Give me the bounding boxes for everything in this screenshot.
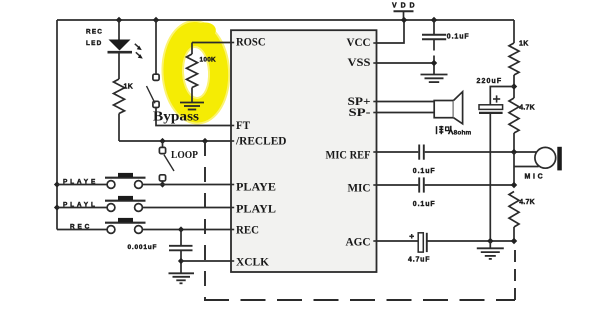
- wire: LED branch from rail: [118, 20, 120, 40]
- svg-text:MIC: MIC: [348, 183, 371, 195]
- svg-text:MIC REF: MIC REF: [326, 150, 371, 162]
- node: MIC REF column junction: [511, 149, 517, 155]
- pushbutton PLAYL: left contact: [107, 204, 115, 212]
- wire: cap to mic node: [425, 151, 537, 153]
- wire: /RECLED line to chip: [119, 140, 231, 142]
- svg-text:PLAYE: PLAYE: [236, 182, 276, 194]
- ground below 0.001uF: [169, 273, 195, 283]
- pushbutton PLAYL: right contact: [135, 204, 143, 212]
- svg-text:PLAYL: PLAYL: [236, 204, 276, 216]
- svg-text:1K: 1K: [124, 84, 134, 91]
- wire: column between mic nodes: [513, 152, 515, 185]
- node: 220uF junction: [511, 83, 517, 89]
- capacitor 0.1uF (MIC REF): [419, 145, 424, 160]
- svg-text:LED: LED: [86, 40, 102, 47]
- pushbutton PLAYL: actuator cap: [118, 196, 133, 200]
- resistor 100K: [187, 54, 198, 88]
- resistor 1K (pull-up): [509, 43, 519, 75]
- wire: 1K down to /RECLED line: [118, 114, 120, 142]
- wire: PLAYL button to chip: [142, 207, 231, 209]
- LED light arrow 2: [136, 52, 143, 58]
- resistor 4.7K (lower): [509, 192, 519, 228]
- svg-text:220uF: 220uF: [477, 78, 503, 85]
- wire: junction down to capacitor: [180, 230, 182, 246]
- LED REC indicator (triangle): [109, 40, 131, 51]
- node: REC wire junction to 0.001uF: [178, 226, 184, 232]
- wire: 4.7K to MIC REF node: [513, 133, 515, 152]
- resistor 1K (LED series): [114, 79, 125, 114]
- svg-text:FT: FT: [236, 120, 250, 132]
- wire: VDD to rail: [403, 11, 405, 20]
- switch Bypass lever: [147, 86, 156, 103]
- pushbutton REC: actuator bar: [105, 222, 146, 224]
- capacitor 220uF plus sign: [493, 95, 500, 102]
- dashed net: bottom horizontal: [204, 299, 515, 301]
- svg-text:0.1uF: 0.1uF: [413, 201, 436, 208]
- wire: bypass switch branch from rail: [155, 20, 157, 74]
- svg-text:/RECLED: /RECLED: [235, 136, 286, 148]
- switch LOOP terminal top: [159, 147, 165, 153]
- wire: bus to PLAYE button: [57, 184, 107, 186]
- wire: right column from rail: [513, 20, 515, 43]
- wire: PLAYE button to chip: [142, 184, 231, 186]
- svg-text:VDD: VDD: [392, 2, 418, 9]
- node: rail junction at LED branch: [116, 17, 122, 23]
- svg-text:4.7uF: 4.7uF: [408, 256, 430, 263]
- ground below 100K: [180, 103, 204, 110]
- svg-text:AGC: AGC: [346, 237, 371, 249]
- wire: 100K bottom lead: [191, 88, 193, 103]
- node: ground junction: [487, 238, 493, 244]
- wire: 220uF down to AGC/ground rail: [489, 113, 491, 241]
- wire: 0.1uF lower lead (with break): [433, 39, 435, 50]
- IC U1 voice chip body: [231, 30, 377, 272]
- wire: ground stub: [489, 241, 491, 248]
- VDD power bar: [394, 10, 414, 12]
- svg-text:4.7K: 4.7K: [519, 199, 535, 206]
- wire: ROSC pin to 100K resistor: [192, 42, 231, 44]
- pushbutton REC: left contact: [107, 226, 115, 234]
- svg-text:8ohm: 8ohm: [454, 130, 472, 137]
- svg-text:VCC: VCC: [347, 37, 371, 49]
- microphone MIC body: [535, 147, 556, 168]
- wire: 100K top lead: [191, 43, 193, 55]
- microphone electret bar: [557, 147, 562, 171]
- yellow marker highlight ring around 100K resistor: [159, 18, 233, 126]
- capacitor 220uF (electrolytic): [479, 105, 503, 113]
- switch Bypass terminal bottom: [153, 101, 159, 107]
- label speaker CJK: [437, 126, 454, 135]
- svg-text:1K: 1K: [519, 40, 529, 47]
- wire: LOOP bottom stub: [162, 181, 164, 185]
- wire: AGC pin to cap: [377, 240, 418, 242]
- svg-text:VSS: VSS: [348, 57, 371, 69]
- node: VCC rail junction: [401, 17, 407, 23]
- wire: branch to mic lower terminal: [514, 166, 539, 168]
- ground at VSS: [421, 75, 448, 83]
- pin stubs crossing chip border: [231, 43, 377, 262]
- LED light arrow 1: [135, 44, 142, 50]
- wire: LED to 1K resistor: [118, 52, 120, 79]
- node: rail junction at bypass branch: [153, 17, 159, 23]
- resistor 4.7K (upper): [509, 98, 519, 133]
- svg-text:100K: 100K: [200, 57, 217, 64]
- node: MIC column junction: [511, 182, 517, 188]
- dashed net: vertical from /RECLED: [204, 141, 206, 300]
- svg-text:Bypass: Bypass: [153, 110, 200, 125]
- wire: rail to 0.1uF cap: [433, 20, 435, 34]
- svg-text:0.001uF: 0.001uF: [128, 244, 158, 251]
- wire: bus to PLAYL button: [57, 207, 107, 209]
- wire: VCC pin to rail: [377, 20, 405, 43]
- wire: 1K to junction: [513, 75, 515, 98]
- ground at analog rail: [477, 248, 504, 259]
- wire: cap to column: [425, 184, 514, 186]
- node: VSS junction: [431, 60, 437, 66]
- svg-text:4.7K: 4.7K: [519, 105, 535, 112]
- svg-text:REC: REC: [86, 28, 103, 35]
- wire: SP- to speaker: [377, 112, 435, 114]
- switch Bypass terminal top: [153, 74, 159, 80]
- switch LOOP lever: [164, 155, 174, 171]
- wire: MIC pin to cap: [377, 184, 419, 186]
- wire: bus to REC button: [57, 229, 107, 231]
- wire: 4.7K to AGC rail: [513, 227, 515, 241]
- pushbutton PLAYE: actuator bar: [105, 177, 146, 179]
- capacitor 0.1uF (MIC): [419, 177, 424, 192]
- node: 4.7K bottom junction: [511, 238, 517, 244]
- wire: XCLK pin wire: [181, 260, 231, 262]
- wire: REC button to chip: [142, 229, 231, 231]
- pushbutton PLAYL: actuator bar: [105, 200, 146, 202]
- pushbutton REC: right contact: [135, 226, 143, 234]
- wire: VSS pin to ground: [377, 63, 435, 74]
- svg-text:0.1uF: 0.1uF: [413, 168, 436, 175]
- capacitor 0.001uF: [169, 246, 193, 251]
- svg-text:MIC: MIC: [525, 173, 546, 180]
- wire: cap to ground node: [427, 240, 514, 242]
- switch LOOP terminal bottom: [159, 175, 165, 181]
- wire: MIC REF pin to cap: [377, 151, 419, 153]
- wire: top power rail: [57, 19, 514, 21]
- capacitor 4.7uF plus sign: [409, 234, 414, 239]
- speaker 8 ohm: [434, 92, 462, 124]
- node: bus junction PLAYL: [54, 204, 60, 210]
- wire: 220uF tap: [490, 87, 514, 105]
- pushbutton PLAYE: left contact: [107, 181, 115, 189]
- node: 0.1uF rail junction: [431, 17, 437, 23]
- svg-text:REC: REC: [236, 225, 259, 237]
- wire: left vertical bus: [56, 20, 58, 230]
- node: LOOP to PLAYE wire: [159, 181, 165, 187]
- wire: capacitor to ground: [180, 250, 182, 272]
- LED cathode bar: [108, 51, 133, 54]
- node: bus junction PLAYE: [54, 181, 60, 187]
- wire: SP+ to speaker: [377, 101, 435, 103]
- node: /RECLED junction with dashed net: [202, 138, 208, 144]
- node: XCLK junction: [178, 258, 184, 264]
- wire: LOOP switch top stub: [162, 141, 164, 147]
- dashed net: right vertical: [514, 243, 516, 300]
- svg-text:LOOP: LOOP: [171, 149, 198, 161]
- capacitor 4.7uF (electrolytic): [418, 233, 427, 252]
- pushbutton PLAYE: right contact: [135, 181, 143, 189]
- pushbutton REC: actuator cap: [118, 218, 133, 222]
- svg-text:XCLK: XCLK: [236, 257, 269, 269]
- svg-text:0.1uF: 0.1uF: [447, 33, 470, 40]
- pushbutton PLAYE: actuator cap: [118, 173, 133, 177]
- svg-text:ROSC: ROSC: [236, 37, 266, 49]
- capacitor 0.1uF (supply decoupling): [422, 35, 446, 40]
- node: /RECLED junction with LOOP switch: [159, 138, 165, 144]
- svg-text:SP-: SP-: [349, 107, 371, 119]
- wire: bypass to FT pin: [156, 108, 231, 126]
